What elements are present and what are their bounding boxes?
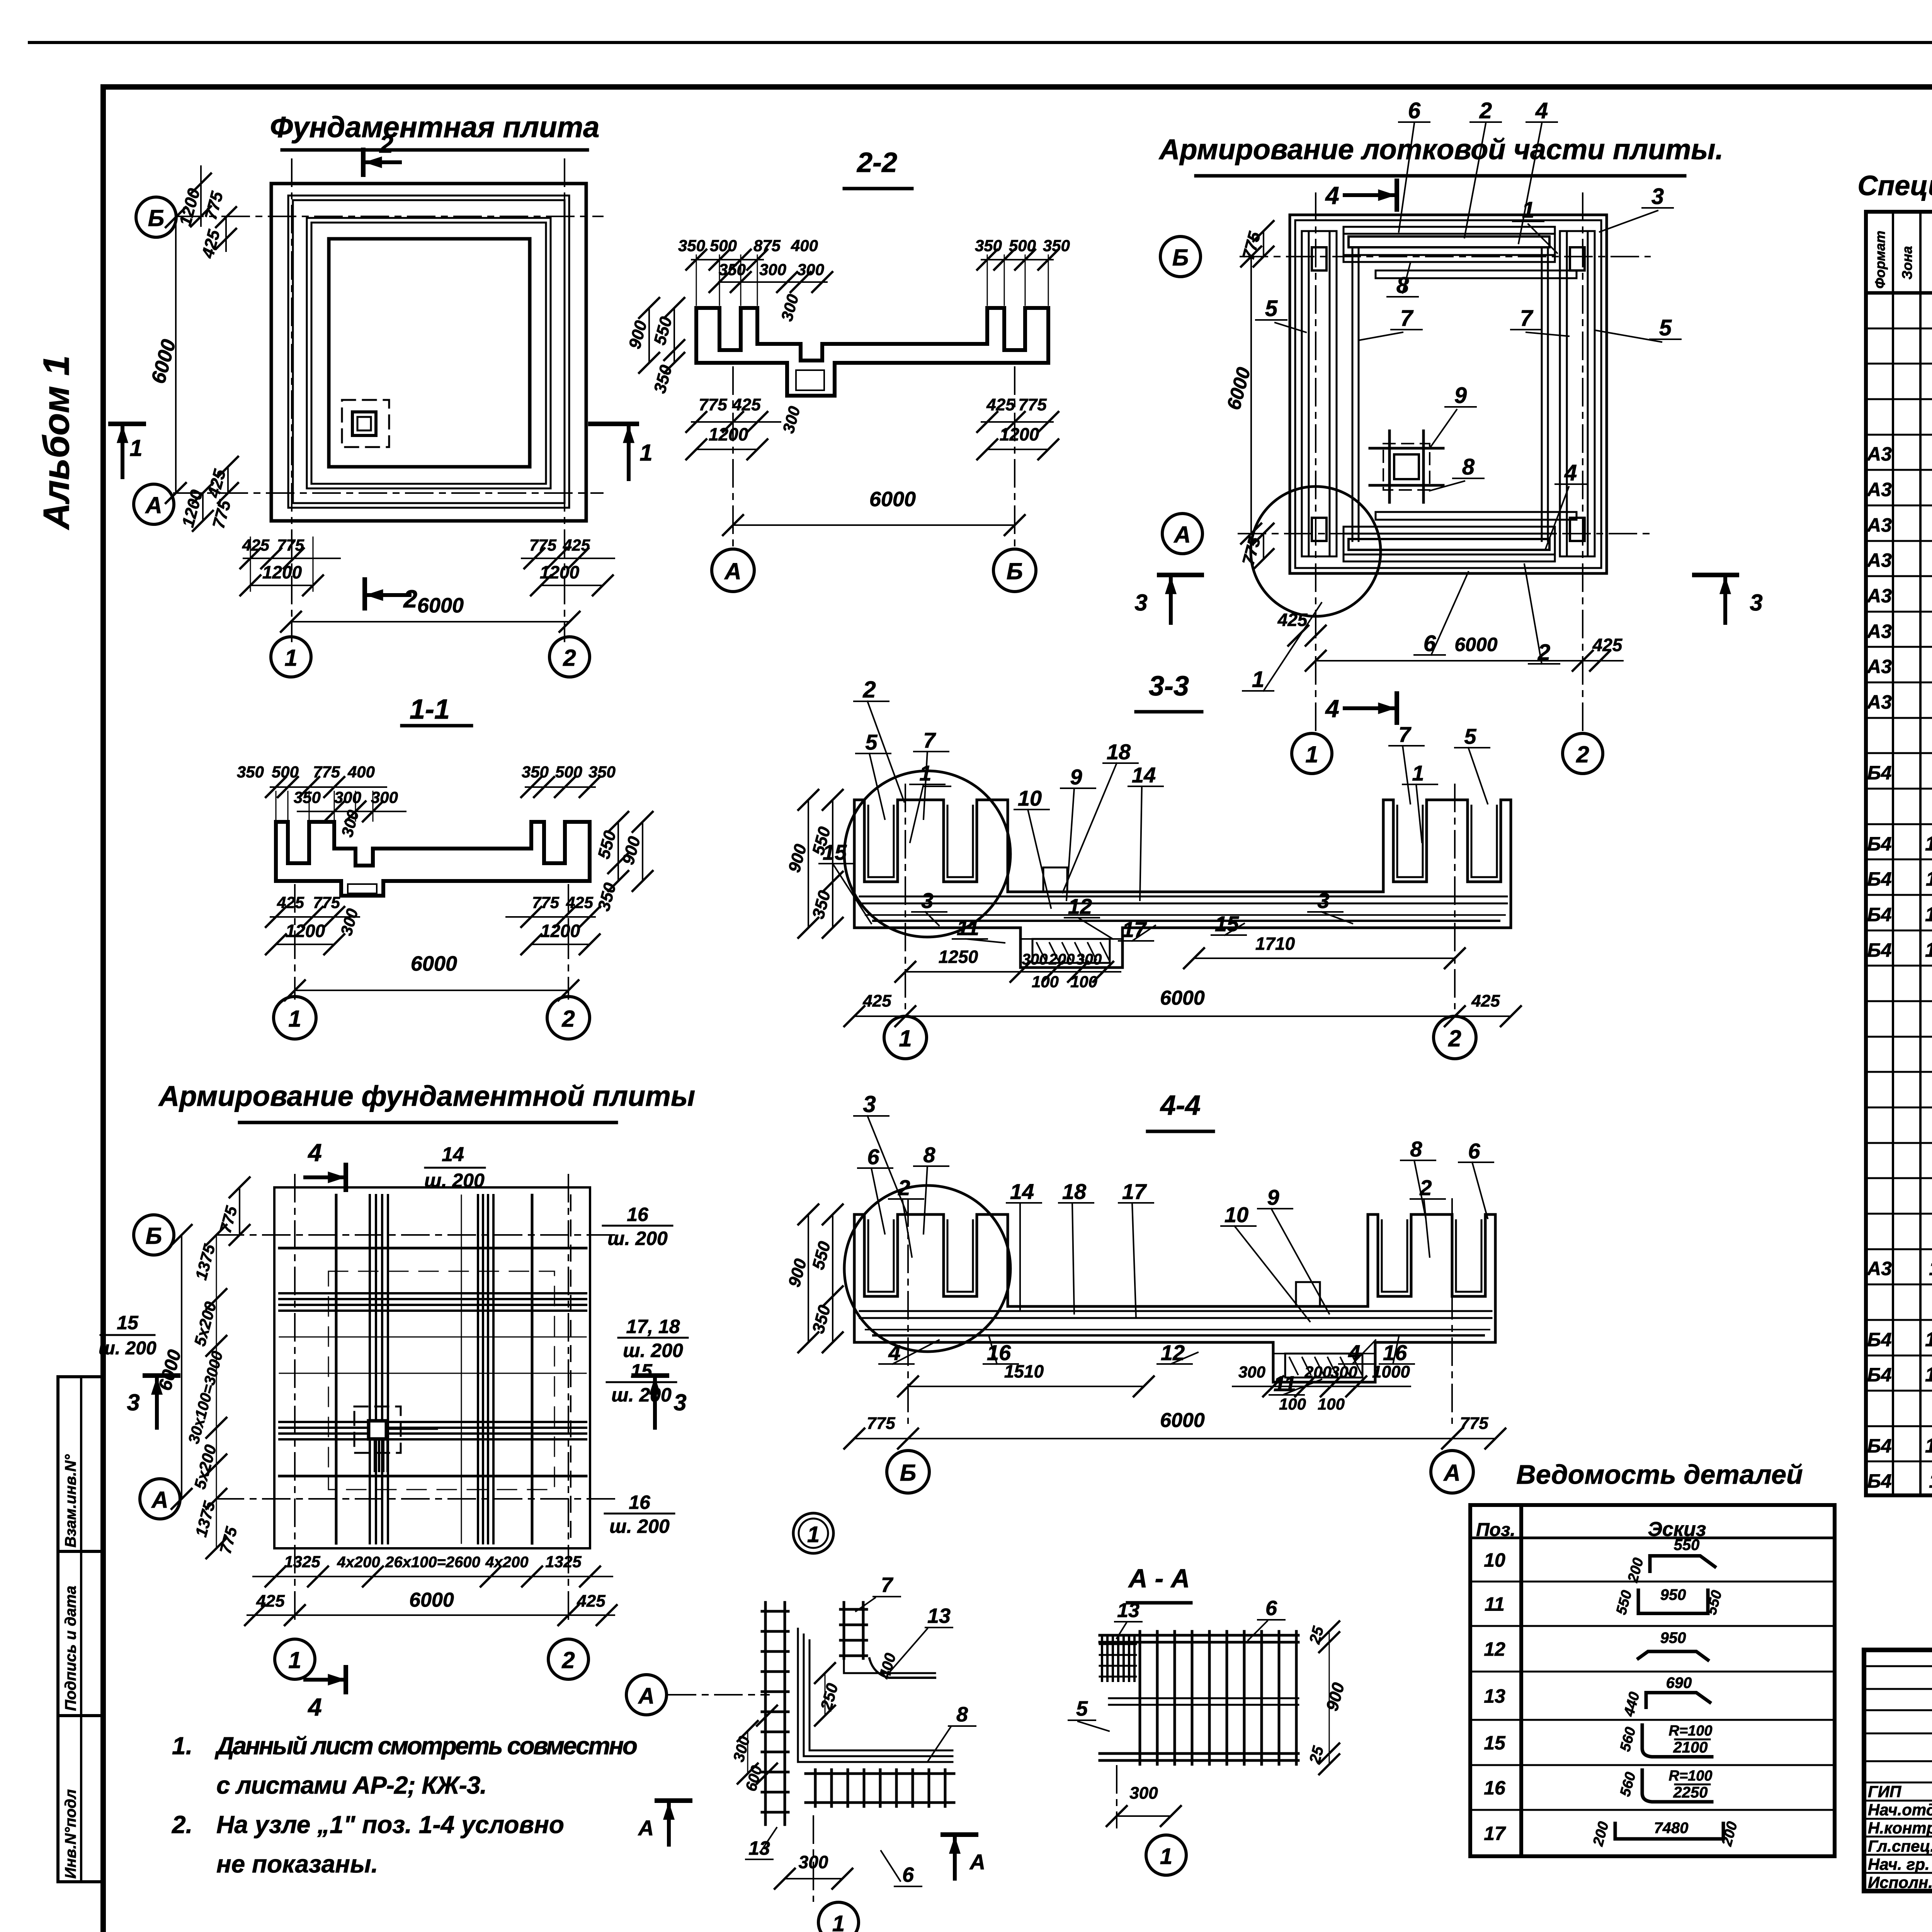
svg-text:4-4: 4-4 (1160, 1090, 1201, 1121)
svg-text:Н.контр.: Н.контр. (1868, 1819, 1932, 1837)
svg-text:А3: А3 (1866, 514, 1892, 536)
svg-text:17*: 17* (1925, 1435, 1932, 1457)
svg-text:Подпись и дата: Подпись и дата (62, 1586, 79, 1711)
svg-text:1200: 1200 (1000, 424, 1039, 444)
svg-text:А3: А3 (1866, 443, 1892, 465)
svg-text:1325: 1325 (545, 1553, 582, 1571)
svg-text:Б4: Б4 (1867, 1435, 1891, 1457)
svg-text:Нач.отд.: Нач.отд. (1868, 1801, 1932, 1819)
svg-text:3: 3 (1134, 590, 1147, 616)
svg-text:425: 425 (242, 536, 270, 554)
svg-text:7: 7 (923, 728, 936, 752)
svg-text:9: 9 (1070, 765, 1082, 789)
svg-text:Ведомость деталей: Ведомость деталей (1516, 1459, 1803, 1490)
svg-text:200: 200 (1304, 1363, 1332, 1381)
svg-text:3: 3 (673, 1389, 686, 1415)
svg-text:А: А (1173, 522, 1190, 548)
svg-text:6: 6 (1265, 1597, 1277, 1620)
svg-text:6: 6 (1408, 98, 1421, 123)
svg-text:5: 5 (1464, 724, 1476, 748)
svg-text:15: 15 (631, 1360, 653, 1382)
svg-text:6: 6 (1468, 1139, 1480, 1163)
svg-text:1: 1 (807, 1522, 820, 1547)
svg-text:9: 9 (1454, 383, 1467, 408)
svg-text:10*: 10* (1925, 833, 1932, 855)
svg-text:1: 1 (1305, 742, 1318, 767)
svg-text:14: 14 (1929, 1257, 1932, 1280)
svg-text:300: 300 (1076, 951, 1102, 968)
svg-text:2250: 2250 (1673, 1784, 1708, 1801)
svg-text:4х200: 4х200 (337, 1554, 380, 1571)
svg-text:ГИП: ГИП (1868, 1782, 1901, 1801)
svg-text:А3: А3 (1866, 1258, 1892, 1279)
svg-text:Б4: Б4 (1867, 1470, 1891, 1492)
svg-text:4: 4 (1564, 460, 1577, 485)
svg-text:5: 5 (1076, 1697, 1088, 1720)
svg-text:11: 11 (1274, 1371, 1296, 1396)
svg-text:10: 10 (1225, 1202, 1248, 1227)
svg-text:17: 17 (1122, 1179, 1147, 1204)
svg-text:Б: Б (1172, 245, 1189, 270)
svg-text:1325: 1325 (284, 1553, 320, 1571)
svg-text:1: 1 (919, 761, 931, 785)
svg-text:12: 12 (1484, 1638, 1505, 1660)
svg-text:775: 775 (313, 893, 340, 912)
svg-text:425: 425 (732, 395, 761, 414)
svg-text:4: 4 (307, 1139, 322, 1167)
svg-text:А: А (638, 1684, 655, 1709)
svg-text:425: 425 (986, 395, 1015, 414)
svg-text:350: 350 (719, 260, 746, 279)
svg-text:ш. 200: ш. 200 (424, 1170, 485, 1191)
svg-text:550: 550 (1674, 1537, 1700, 1554)
svg-text:6000: 6000 (409, 1589, 454, 1611)
svg-text:4: 4 (888, 1340, 900, 1365)
svg-text:350: 350 (237, 763, 264, 781)
svg-text:А - А: А - А (1128, 1564, 1190, 1593)
svg-text:1-1: 1-1 (410, 694, 450, 725)
svg-text:Армирование лотковой части пли: Армирование лотковой части плиты. (1158, 133, 1723, 165)
svg-text:3: 3 (863, 1091, 876, 1117)
svg-text:350: 350 (294, 788, 321, 806)
svg-text:На узле „1" поз. 1-4 условно: На узле „1" поз. 1-4 условно (216, 1811, 564, 1838)
svg-text:6: 6 (867, 1145, 879, 1169)
svg-text:6000: 6000 (1454, 634, 1497, 655)
svg-text:775: 775 (529, 536, 557, 554)
svg-text:425: 425 (256, 1592, 285, 1611)
svg-text:100: 100 (1318, 1395, 1345, 1413)
svg-text:16: 16 (987, 1340, 1011, 1365)
svg-text:ш. 200: ш. 200 (609, 1515, 670, 1537)
svg-text:Б: Б (146, 1223, 162, 1249)
svg-text:А3: А3 (1866, 585, 1892, 607)
svg-text:Б: Б (900, 1460, 916, 1486)
svg-text:6000: 6000 (1160, 1409, 1205, 1432)
svg-text:Б: Б (148, 205, 164, 231)
svg-text:350: 350 (588, 763, 616, 781)
svg-text:1: 1 (832, 1911, 845, 1932)
svg-text:3: 3 (127, 1389, 139, 1415)
svg-text:400: 400 (791, 236, 818, 255)
svg-text:100: 100 (1032, 973, 1059, 991)
svg-text:ш. 200: ш. 200 (607, 1228, 668, 1249)
svg-text:300: 300 (797, 260, 824, 279)
svg-text:425: 425 (862, 992, 891, 1010)
svg-text:А: А (145, 492, 162, 518)
svg-text:2: 2 (898, 1175, 910, 1200)
svg-text:Гл.спец.: Гл.спец. (1868, 1837, 1932, 1855)
svg-text:425: 425 (277, 893, 304, 912)
svg-text:500: 500 (710, 236, 737, 255)
svg-text:425: 425 (566, 893, 594, 912)
svg-text:350: 350 (1043, 236, 1070, 255)
svg-text:4: 4 (1325, 695, 1339, 723)
svg-text:17: 17 (1122, 917, 1147, 942)
svg-text:15: 15 (823, 840, 847, 864)
svg-text:14: 14 (442, 1143, 464, 1166)
svg-text:500: 500 (1009, 236, 1036, 255)
svg-text:Формат: Формат (1872, 231, 1888, 289)
svg-text:500: 500 (555, 763, 582, 781)
svg-text:1: 1 (899, 1026, 912, 1051)
svg-text:5: 5 (1265, 296, 1278, 321)
svg-text:690: 690 (1666, 1675, 1692, 1692)
svg-text:1: 1 (1522, 197, 1534, 223)
svg-text:2: 2 (561, 1006, 575, 1032)
svg-text:2: 2 (1479, 98, 1492, 123)
svg-text:14: 14 (1132, 763, 1156, 787)
svg-text:775: 775 (277, 536, 304, 554)
svg-text:4: 4 (1325, 182, 1339, 209)
svg-text:Б4: Б4 (1867, 868, 1891, 890)
svg-text:А: А (969, 1850, 985, 1874)
svg-text:350: 350 (678, 236, 705, 255)
svg-text:3: 3 (1750, 590, 1762, 616)
svg-text:4: 4 (1535, 98, 1548, 123)
svg-text:1000: 1000 (1372, 1362, 1410, 1381)
svg-text:26х100=2600: 26х100=2600 (385, 1554, 480, 1571)
svg-text:775: 775 (1018, 395, 1047, 414)
svg-text:А: А (638, 1816, 654, 1840)
svg-text:16: 16 (1383, 1340, 1407, 1365)
svg-text:775: 775 (313, 763, 340, 781)
svg-text:Б4: Б4 (1867, 1364, 1891, 1386)
svg-text:ш. 200: ш. 200 (623, 1340, 683, 1361)
svg-text:7480: 7480 (1654, 1820, 1689, 1837)
svg-text:5: 5 (865, 730, 878, 754)
svg-text:2: 2 (563, 645, 576, 671)
svg-text:1: 1 (129, 435, 142, 461)
svg-text:775: 775 (699, 395, 727, 414)
svg-text:12: 12 (1161, 1340, 1185, 1365)
svg-text:6000: 6000 (417, 594, 464, 617)
svg-text:1200: 1200 (286, 921, 325, 941)
svg-text:775: 775 (532, 893, 560, 912)
svg-text:500: 500 (272, 763, 299, 781)
svg-text:400: 400 (347, 763, 375, 781)
svg-text:16: 16 (629, 1492, 651, 1513)
svg-text:300: 300 (1129, 1784, 1158, 1803)
svg-text:Нач. гр.: Нач. гр. (1868, 1855, 1930, 1873)
svg-text:300: 300 (1330, 1363, 1357, 1381)
svg-text:12: 12 (1068, 894, 1092, 918)
svg-text:6: 6 (1423, 631, 1436, 656)
svg-text:А: А (151, 1487, 168, 1513)
svg-text:4х200: 4х200 (485, 1554, 528, 1571)
svg-text:Альбом 1: Альбом 1 (36, 355, 77, 530)
svg-text:Б: Б (1007, 558, 1023, 584)
svg-text:Данный лист смотреть совместно: Данный лист смотреть совместно (214, 1732, 638, 1760)
svg-text:Армирование фундаментной плиты: Армирование фундаментной плиты (158, 1080, 695, 1112)
svg-text:1200: 1200 (262, 562, 302, 582)
svg-text:7: 7 (881, 1573, 894, 1597)
svg-text:Зона: Зона (1899, 246, 1915, 280)
svg-text:17, 18: 17, 18 (626, 1316, 680, 1337)
svg-text:10: 10 (1484, 1549, 1505, 1571)
svg-text:13: 13 (1484, 1685, 1505, 1707)
svg-text:15: 15 (1215, 912, 1239, 936)
svg-text:300: 300 (759, 260, 786, 279)
svg-text:1: 1 (1160, 1844, 1172, 1869)
svg-text:8: 8 (923, 1143, 935, 1167)
svg-text:7: 7 (1400, 306, 1414, 331)
svg-text:Б4: Б4 (1867, 939, 1891, 961)
svg-text:6000: 6000 (411, 952, 457, 975)
svg-text:Фундаментная плита: Фундаментная плита (270, 111, 600, 144)
svg-text:1710: 1710 (1255, 934, 1295, 954)
svg-text:А3: А3 (1866, 656, 1892, 677)
svg-text:16: 16 (1484, 1777, 1506, 1799)
svg-text:3: 3 (1651, 184, 1664, 209)
svg-text:Б4: Б4 (1867, 904, 1891, 925)
svg-text:8: 8 (1410, 1137, 1422, 1161)
svg-text:не показаны.: не показаны. (216, 1850, 378, 1878)
svg-text:100: 100 (1279, 1395, 1306, 1413)
svg-text:R=100: R=100 (1668, 1723, 1712, 1739)
svg-text:1: 1 (1252, 667, 1264, 692)
svg-text:1200: 1200 (541, 921, 580, 941)
svg-text:8: 8 (956, 1703, 968, 1726)
svg-text:1: 1 (639, 440, 652, 466)
svg-text:200: 200 (1049, 951, 1075, 968)
svg-text:16*: 16* (1925, 1364, 1932, 1386)
svg-text:6: 6 (902, 1863, 914, 1886)
svg-text:12*: 12* (1925, 903, 1932, 926)
svg-text:Исполн.: Исполн. (1868, 1873, 1932, 1891)
svg-text:1: 1 (288, 1006, 301, 1032)
svg-text:425: 425 (1277, 610, 1308, 630)
svg-text:5: 5 (1659, 315, 1672, 340)
svg-text:2: 2 (403, 585, 417, 613)
svg-text:1: 1 (288, 1647, 301, 1673)
svg-text:10: 10 (1018, 786, 1042, 810)
svg-text:14: 14 (1010, 1179, 1034, 1204)
svg-text:950: 950 (1660, 1587, 1686, 1604)
svg-text:13: 13 (748, 1837, 770, 1859)
svg-text:ш. 200: ш. 200 (99, 1338, 156, 1359)
svg-text:Б4: Б4 (1867, 1329, 1891, 1350)
svg-text:2: 2 (379, 130, 393, 158)
svg-text:2-2: 2-2 (856, 147, 897, 178)
svg-text:17: 17 (1484, 1823, 1506, 1844)
svg-text:18: 18 (1929, 1470, 1932, 1492)
svg-text:1.: 1. (172, 1732, 192, 1760)
svg-text:11: 11 (957, 915, 979, 940)
svg-text:2: 2 (1576, 742, 1589, 767)
svg-text:6000: 6000 (1160, 987, 1205, 1009)
svg-text:8: 8 (1462, 454, 1475, 480)
svg-text:100: 100 (1070, 973, 1097, 991)
svg-text:3: 3 (921, 888, 933, 913)
svg-text:11*: 11* (1926, 868, 1932, 890)
svg-text:2: 2 (561, 1647, 575, 1673)
svg-text:Взам.инв.N°: Взам.инв.N° (62, 1454, 79, 1548)
svg-text:425: 425 (1471, 992, 1500, 1010)
svg-text:3-3: 3-3 (1149, 671, 1189, 702)
svg-text:1250: 1250 (939, 947, 978, 967)
svg-text:Спецификация арматурных изде: Спецификация арматурных изделий на фунда… (1857, 170, 1932, 201)
svg-text:7: 7 (1520, 306, 1534, 331)
svg-text:18: 18 (1107, 740, 1131, 764)
svg-text:4: 4 (1348, 1340, 1360, 1365)
svg-text:2.: 2. (172, 1811, 192, 1838)
svg-text:15: 15 (117, 1312, 139, 1333)
svg-text:2: 2 (862, 677, 876, 702)
svg-text:А3: А3 (1866, 621, 1892, 642)
svg-text:775: 775 (867, 1414, 895, 1433)
svg-text:300: 300 (1238, 1363, 1265, 1381)
svg-text:300: 300 (334, 788, 361, 806)
svg-text:18: 18 (1062, 1179, 1087, 1204)
svg-text:15*: 15* (1925, 1328, 1932, 1351)
svg-text:2100: 2100 (1673, 1739, 1708, 1756)
svg-text:950: 950 (1660, 1629, 1686, 1646)
svg-text:13: 13 (927, 1604, 951, 1628)
svg-text:16: 16 (627, 1204, 649, 1225)
svg-text:Инв.N°подл: Инв.N°подл (62, 1789, 79, 1879)
svg-text:4: 4 (307, 1693, 322, 1721)
svg-text:11: 11 (1485, 1594, 1505, 1615)
svg-text:9: 9 (1267, 1185, 1279, 1209)
svg-text:R=100: R=100 (1668, 1768, 1712, 1784)
svg-text:425: 425 (563, 536, 590, 554)
svg-text:с листами АР-2; КЖ-3.: с листами АР-2; КЖ-3. (216, 1771, 487, 1799)
svg-text:ш. 200: ш. 200 (611, 1384, 672, 1406)
svg-text:А3: А3 (1866, 479, 1892, 500)
svg-text:Б4: Б4 (1867, 833, 1891, 855)
svg-text:А3: А3 (1866, 549, 1892, 571)
svg-text:6000: 6000 (869, 488, 916, 511)
svg-text:775: 775 (1460, 1414, 1488, 1433)
svg-text:1200: 1200 (540, 562, 580, 582)
svg-text:1200: 1200 (709, 424, 748, 444)
svg-text:А: А (724, 558, 741, 584)
svg-text:300: 300 (371, 788, 398, 806)
svg-text:350: 350 (975, 236, 1002, 255)
svg-text:15: 15 (1484, 1732, 1506, 1754)
svg-text:2: 2 (1448, 1026, 1461, 1051)
svg-text:350: 350 (522, 763, 549, 781)
svg-text:1: 1 (284, 645, 297, 671)
svg-text:7: 7 (1398, 722, 1412, 747)
svg-text:875: 875 (753, 236, 781, 255)
svg-text:Б4: Б4 (1867, 762, 1891, 784)
svg-text:1: 1 (1412, 761, 1424, 785)
svg-text:А: А (1443, 1460, 1460, 1486)
svg-text:2: 2 (1419, 1175, 1432, 1200)
svg-text:13*: 13* (1925, 939, 1932, 961)
svg-text:300: 300 (1022, 951, 1048, 968)
svg-text:Поз.: Поз. (1476, 1520, 1515, 1540)
svg-text:3: 3 (1317, 888, 1329, 913)
svg-text:425: 425 (577, 1592, 605, 1611)
svg-text:8: 8 (1396, 273, 1409, 298)
svg-text:13: 13 (1117, 1599, 1139, 1622)
svg-text:А3: А3 (1866, 691, 1892, 713)
